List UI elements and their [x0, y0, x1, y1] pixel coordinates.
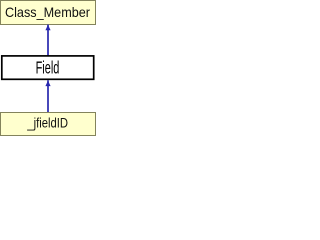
svg-text:_jfieldID: _jfieldID [26, 115, 68, 131]
class box Field (current class) [2, 56, 94, 79]
inheritance arrow _jfieldID to Field : arrowhead [45, 81, 50, 87]
class box Class_Member [1, 1, 96, 25]
svg-text:Class_Member: Class_Member [5, 4, 90, 20]
svg-text:Field: Field [36, 57, 60, 77]
inheritance arrow _jfieldID to Field : wire shaft [47, 80, 49, 112]
inheritance arrow Field to Class_Member : arrowhead [45, 25, 50, 31]
background [0, 0, 96, 136]
class box _jfieldID [1, 113, 96, 136]
inheritance arrow Field to Class_Member : wire shaft [47, 25, 49, 56]
